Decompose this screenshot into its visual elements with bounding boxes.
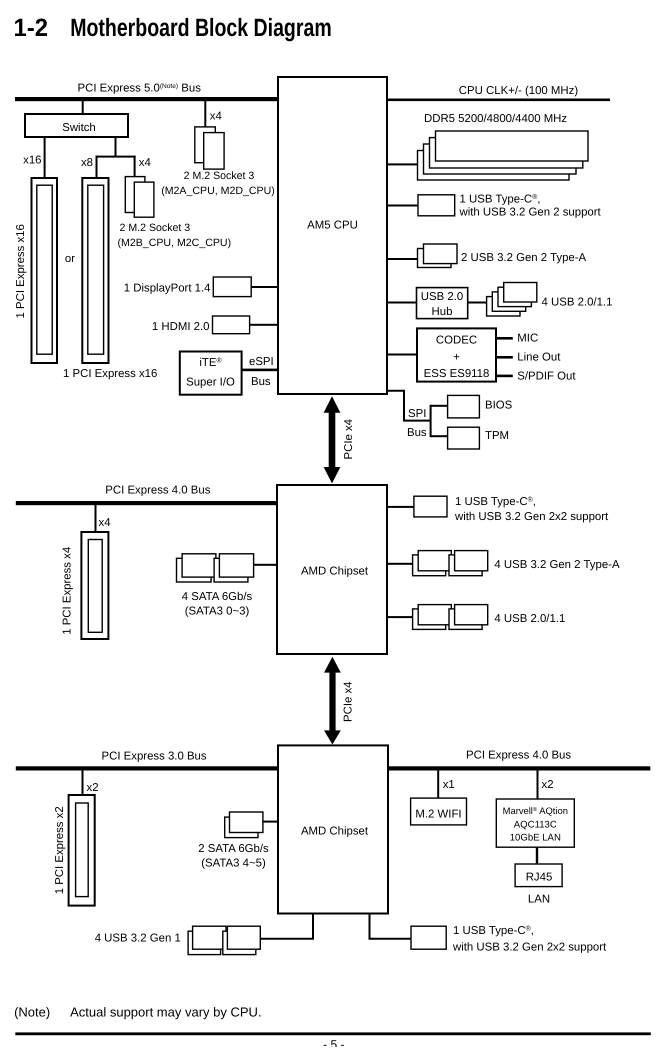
footer rule: [15, 1032, 651, 1035]
svg-text:PCI Express 4.0 Bus: PCI Express 4.0 Bus: [105, 485, 210, 497]
svg-text:RJ45: RJ45: [526, 872, 553, 884]
svg-text:4 SATA 6Gb/s: 4 SATA 6Gb/s: [182, 591, 253, 603]
svg-text:1 USB Type-C®,: 1 USB Type-C®,: [455, 496, 536, 508]
svg-text:1 PCI Express x16: 1 PCI Express x16: [63, 368, 157, 380]
svg-text:(SATA3 0~3): (SATA3 0~3): [185, 606, 250, 618]
wire: SPI to TPM: [431, 435, 448, 437]
wire: PCI Express 4.0 bus (thick): [16, 501, 277, 505]
PCIe x4 slot inner: [88, 540, 102, 633]
USB 3.2 Gen1 card front-right: [227, 926, 260, 949]
BIOS box: [448, 395, 480, 418]
wire: DisplayPort to CPU: [251, 286, 278, 288]
wire: PCI Express 5.0 bus (thick): [15, 97, 278, 101]
svg-text:x16: x16: [23, 155, 41, 167]
wire: HDMI to CPU: [250, 324, 278, 326]
svg-text:with USB 3.2 Gen 2x2 support: with USB 3.2 Gen 2x2 support: [452, 942, 607, 954]
svg-text:PCI Express 4.0 Bus: PCI Express 4.0 Bus: [466, 750, 571, 762]
USB 3.2 row card back-left: [413, 555, 446, 576]
svg-text:CPU CLK+/- (100 MHz): CPU CLK+/- (100 MHz): [459, 85, 579, 97]
svg-text:x4: x4: [210, 111, 222, 123]
svg-text:AM5 CPU: AM5 CPU: [307, 220, 358, 232]
svg-text:x4: x4: [99, 517, 111, 529]
svg-text:Line Out: Line Out: [517, 352, 561, 364]
wire: CPU to USB 2.0 Hub: [387, 302, 417, 304]
svg-text:(SATA3 4~5): (SATA3 4~5): [201, 857, 266, 869]
TPM box: [448, 427, 480, 449]
svg-text:PCI Express 3.0 Bus: PCI Express 3.0 Bus: [102, 751, 207, 763]
arrow head down: [324, 467, 341, 483]
USB 3.2 row card back-right: [449, 555, 482, 576]
DDR5 DIMM card 1 (front): [436, 131, 589, 161]
svg-text:LAN: LAN: [528, 894, 550, 906]
wire: chipset to 4 USB 2.0: [387, 616, 413, 618]
wire: PCI Express 4.0 bus (thick right): [388, 766, 650, 770]
wire: Marvell to RJ45: [536, 847, 538, 864]
wire: chipset 2 to USB 3.2 Gen 1: [261, 914, 313, 939]
DisplayPort box: [213, 277, 251, 297]
svg-text:Bus: Bus: [251, 376, 271, 388]
svg-text:USB 2.0: USB 2.0: [421, 291, 463, 303]
wire: x8 drop: [96, 156, 98, 179]
USB Type-C box (chipset 1): [414, 496, 447, 517]
wire: S/PDIF stub: [496, 375, 513, 378]
USB 2.0 card 1 (front): [504, 283, 537, 303]
wire: CPU to SPI step: [386, 391, 431, 421]
SATA card back-left: [177, 558, 212, 582]
PCIe x16 slot 2 inner: [88, 185, 104, 354]
wire: bus to M.2 A/D: [204, 101, 206, 127]
svg-text:1 PCI Express x16: 1 PCI Express x16: [15, 224, 27, 318]
wire: chipset 2 to USB Type-C 3: [370, 914, 412, 939]
svg-text:Motherboard Block Diagram: Motherboard Block Diagram: [70, 14, 332, 42]
M.2 socket B/C front card: [134, 182, 154, 217]
svg-text:Bus: Bus: [407, 427, 427, 439]
svg-text:x2: x2: [87, 782, 99, 794]
USB 2.0 Hub box: [417, 288, 468, 319]
M.2 socket A/D front card: [204, 133, 224, 170]
wire: CPU to CODEC: [387, 354, 417, 356]
svg-text:- 5 -: - 5 -: [323, 1038, 344, 1048]
svg-text:x4: x4: [139, 157, 151, 169]
svg-text:10GbE LAN: 10GbE LAN: [510, 833, 561, 844]
wire: CPU to USB Type-C (top): [387, 205, 418, 207]
wire: SATA to chipset: [254, 564, 277, 566]
svg-text:1 PCI Express x4: 1 PCI Express x4: [62, 547, 74, 635]
svg-text:4 USB 2.0/1.1: 4 USB 2.0/1.1: [494, 613, 565, 625]
svg-text:4 USB 2.0/1.1: 4 USB 2.0/1.1: [542, 297, 613, 309]
USB Type-C box (CPU): [418, 195, 455, 216]
USB 3.2 row card front-left: [418, 551, 451, 571]
wire: SPI to BIOS: [431, 405, 448, 407]
arrow CPU-chipset shaft: [329, 412, 336, 467]
USB 2.0 row card back-left: [413, 609, 446, 630]
wire: switch down right branch: [115, 137, 117, 156]
arrow head up: [324, 396, 341, 412]
CODEC box: [417, 328, 496, 381]
M.2 WIFI box: [411, 798, 467, 825]
wire: Line Out stub: [496, 356, 513, 359]
wire: 2 SATA to chipset 2: [263, 821, 278, 823]
USB 3.2 Gen1 card front-left: [193, 926, 226, 949]
USB 3.2 Gen1 card back-left: [188, 931, 221, 954]
arrow head up 2: [324, 657, 341, 673]
svg-text:x2: x2: [542, 779, 554, 791]
SATA card back-right: [214, 558, 248, 582]
svg-text:1 HDMI 2.0: 1 HDMI 2.0: [152, 321, 210, 333]
svg-text:DDR5 5200/4800/4400 MHz: DDR5 5200/4800/4400 MHz: [424, 113, 567, 125]
svg-text:Super I/O: Super I/O: [186, 377, 235, 389]
wire: bus to PCIe x4 slot: [95, 505, 97, 532]
arrow head down 2: [324, 730, 341, 744]
svg-text:M.2 WIFI: M.2 WIFI: [415, 809, 461, 821]
wire: PCI Express 3.0 bus (thick left): [16, 766, 278, 770]
PCIe x4 slot outer: [81, 532, 108, 639]
svg-text:AMD Chipset: AMD Chipset: [301, 825, 369, 837]
PCIe x16 slot 2 outer: [82, 178, 108, 363]
svg-text:with USB 3.2 Gen 2x2 support: with USB 3.2 Gen 2x2 support: [454, 511, 609, 523]
wire: MIC stub: [496, 337, 513, 340]
svg-text:1 USB Type-C®,: 1 USB Type-C®,: [460, 194, 541, 206]
svg-text:MIC: MIC: [517, 333, 538, 345]
svg-text:Hub: Hub: [432, 306, 453, 318]
USB 2.0 card 4 (back): [487, 297, 520, 316]
svg-text:4 USB 3.2 Gen 1: 4 USB 3.2 Gen 1: [95, 933, 181, 945]
USB Type-C box (chipset 2): [411, 926, 446, 949]
svg-text:(M2B_CPU, M2C_CPU): (M2B_CPU, M2C_CPU): [118, 237, 232, 249]
PCIe x2 slot outer: [69, 795, 95, 906]
USB 3.2 Gen2 card back: [418, 249, 452, 268]
svg-text:AMD Chipset: AMD Chipset: [301, 566, 369, 578]
svg-text:2 USB 3.2 Gen 2 Type-A: 2 USB 3.2 Gen 2 Type-A: [461, 252, 587, 264]
svg-text:with USB 3.2 Gen 2 support: with USB 3.2 Gen 2 support: [459, 207, 602, 219]
2 SATA card front: [230, 812, 263, 833]
wire: bus to PCIe x2 slot: [82, 771, 84, 796]
wire: chipset to 4 USB 3.2: [387, 563, 413, 565]
svg-text:(M2A_CPU, M2D_CPU): (M2A_CPU, M2D_CPU): [161, 185, 275, 197]
wire: hub to USB 2.0 stack: [468, 302, 487, 304]
USB 2.0 card 2: [498, 287, 531, 306]
svg-text:PCI Express 5.0(Note) Bus: PCI Express 5.0(Note) Bus: [78, 83, 202, 95]
svg-text:PCIe x4: PCIe x4: [343, 681, 355, 722]
RJ45 box: [515, 864, 562, 887]
svg-text:SPI: SPI: [408, 408, 426, 420]
svg-text:2 M.2 Socket 3: 2 M.2 Socket 3: [184, 170, 255, 182]
CPU box U1: [278, 77, 387, 394]
SATA card front-right: [219, 554, 253, 577]
svg-text:2 M.2 Socket 3: 2 M.2 Socket 3: [120, 222, 191, 234]
AMD Chipset box 2: [278, 745, 388, 913]
svg-text:AQC113C: AQC113C: [514, 819, 557, 830]
Marvell AQtion LAN box: [496, 799, 574, 847]
iTE Super I/O box: [180, 352, 242, 395]
DDR5 DIMM card 4 (back): [418, 151, 570, 181]
USB 2.0 row card front-right: [455, 605, 488, 625]
DDR5 DIMM card 2: [430, 138, 583, 168]
USB 2.0 row card front-left: [418, 605, 451, 625]
svg-text:ESS ES9118: ESS ES9118: [424, 368, 490, 380]
PCIe x2 slot inner: [76, 803, 89, 897]
wire: CPU CLK line: [387, 99, 610, 102]
svg-text:1 USB Type-C®,: 1 USB Type-C®,: [453, 925, 534, 937]
wire: x4 drop to M.2: [134, 156, 136, 177]
svg-text:Actual support may vary by CPU: Actual support may vary by CPU.: [70, 1005, 261, 1020]
wire: switch to PCIe x16 slot: [44, 137, 46, 179]
svg-text:x1: x1: [443, 779, 455, 791]
wire: T bar: [96, 156, 136, 158]
svg-text:eSPI: eSPI: [249, 356, 274, 368]
svg-text:+: +: [453, 352, 460, 364]
svg-text:TPM: TPM: [485, 430, 509, 442]
M.2 socket A/D back card: [195, 127, 216, 163]
SATA card front-left: [182, 554, 216, 577]
svg-text:Switch: Switch: [62, 122, 96, 134]
arrow chipset-chipset shaft: [329, 671, 335, 731]
2 SATA card back: [225, 817, 258, 838]
DDR5 DIMM card 3: [424, 144, 577, 174]
USB 2.0 row card back-right: [449, 609, 482, 630]
svg-text:CODEC: CODEC: [436, 335, 477, 347]
USB 3.2 row card front-right: [455, 551, 488, 571]
wire: CPU to DDR5: [387, 163, 418, 165]
wire: SPI vertical: [430, 405, 432, 437]
PCIe x16 slot 1 outer: [32, 178, 58, 363]
AMD Chipset box 1: [277, 485, 387, 654]
svg-text:(Note): (Note): [14, 1005, 50, 1020]
wire: eSPI bus: [242, 369, 278, 372]
wire: CPU to 2 USB 3.2: [387, 258, 418, 260]
svg-text:1 PCI Express x2: 1 PCI Express x2: [54, 806, 66, 894]
wire: bus to Switch: [82, 101, 84, 115]
svg-text:4 USB 3.2 Gen 2 Type-A: 4 USB 3.2 Gen 2 Type-A: [494, 559, 620, 571]
wire: bus to M.2 WIFI: [437, 771, 439, 799]
svg-text:or: or: [65, 253, 75, 265]
svg-text:S/PDIF Out: S/PDIF Out: [517, 370, 576, 382]
svg-text:1 DisplayPort 1.4: 1 DisplayPort 1.4: [124, 283, 211, 295]
svg-text:1-2: 1-2: [14, 14, 49, 42]
HDMI box: [213, 316, 250, 334]
USB 3.2 Gen2 card front: [424, 244, 458, 264]
wire: chipset to USB Type-C 2: [387, 506, 414, 508]
svg-text:2 SATA 6Gb/s: 2 SATA 6Gb/s: [198, 843, 269, 855]
svg-text:x8: x8: [81, 157, 93, 169]
svg-text:PCIe x4: PCIe x4: [343, 419, 355, 460]
Switch box: [25, 114, 128, 137]
USB 3.2 Gen1 card back-right: [223, 931, 256, 954]
wire: bus to Marvell LAN: [537, 771, 539, 800]
M.2 socket B/C back card: [125, 177, 145, 213]
PCIe x16 slot 1 inner: [37, 185, 52, 354]
USB 2.0 card 3: [492, 292, 525, 311]
svg-text:BIOS: BIOS: [485, 400, 513, 412]
